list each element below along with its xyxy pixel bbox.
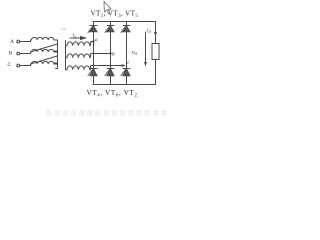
svg-text:B: B <box>9 51 13 57</box>
bridge leg 2 <box>110 22 112 85</box>
id current arrowhead <box>154 32 157 37</box>
wire A to primary winding <box>20 40 31 42</box>
ia current arrow <box>70 37 86 40</box>
thyristor VT6 <box>105 69 114 76</box>
svg-text:TR: TR <box>61 27 67 32</box>
svg-text:C: C <box>8 62 12 68</box>
primary winding 1 <box>32 37 54 40</box>
terminal A <box>17 40 20 43</box>
svg-text:A: A <box>10 39 14 45</box>
thyristor VT4 <box>88 69 97 76</box>
secondary star bus <box>65 41 67 70</box>
secondary winding b <box>66 54 91 58</box>
load resistor R <box>152 44 159 60</box>
thyristor VT5 <box>121 26 130 33</box>
wire phase a to bridge <box>91 41 94 43</box>
thyristor VT1 <box>88 26 97 33</box>
ud reference arrow <box>145 32 147 64</box>
svg-text:ud: ud <box>132 50 138 56</box>
secondary winding a <box>66 42 91 46</box>
delta diagonal 1 <box>31 44 58 52</box>
bottom bus <box>93 84 156 86</box>
terminal C <box>17 64 20 67</box>
svg-text:id: id <box>147 28 152 34</box>
mouse cursor <box>104 2 111 14</box>
svg-text:b: b <box>112 52 115 58</box>
secondary winding c <box>66 66 91 70</box>
bridge leg 3 <box>126 22 128 85</box>
wire phase c to bridge <box>91 65 123 67</box>
wire C to primary winding <box>20 64 31 66</box>
terminal B <box>17 52 20 55</box>
svg-text:c: c <box>127 60 130 66</box>
primary winding 1 right bracket <box>54 40 58 51</box>
delta diagonal 2 <box>31 56 58 64</box>
svg-text:ia: ia <box>73 33 77 39</box>
svg-text:VT4, VT6, VT2: VT4, VT6, VT2 <box>87 89 138 99</box>
top bus <box>93 21 156 23</box>
svg-text:VT1, VT3, VT5: VT1, VT3, VT5 <box>91 9 139 19</box>
primary winding 2 right bracket <box>54 52 58 63</box>
wire B to primary winding <box>20 52 31 54</box>
thyristor VT2 <box>121 69 130 76</box>
svg-text:a: a <box>95 37 98 43</box>
primary winding 3 <box>32 61 54 64</box>
load branch wire <box>155 22 157 85</box>
ud arrowhead <box>144 62 147 67</box>
bridge leg 1 <box>93 22 95 85</box>
node a junction dot <box>92 40 94 42</box>
thyristor VT3 <box>105 26 114 33</box>
wire phase b to bridge <box>91 53 111 55</box>
faint caption row <box>46 110 167 116</box>
primary winding 2 <box>32 49 54 52</box>
node b junction dot <box>109 52 111 54</box>
node c arrowhead <box>122 64 127 67</box>
primary winding 3 right bracket <box>54 64 58 69</box>
